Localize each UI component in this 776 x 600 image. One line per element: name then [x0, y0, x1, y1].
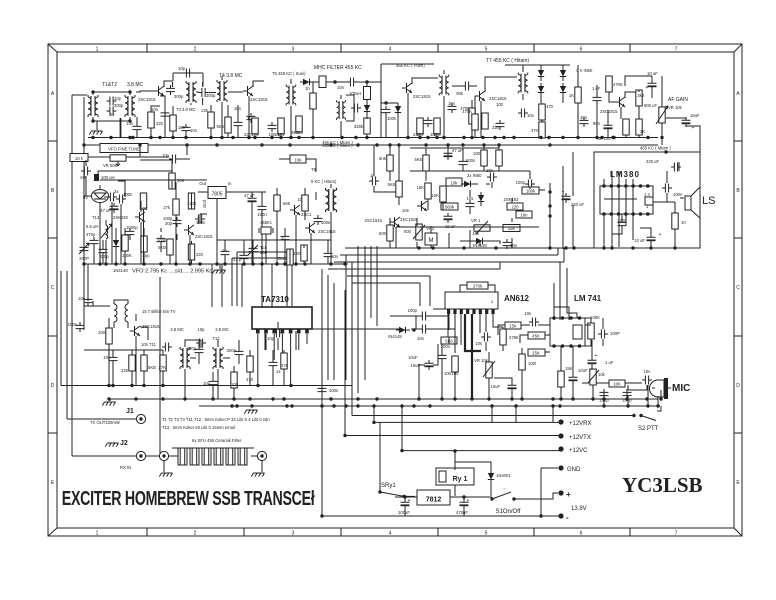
junction	[91, 119, 94, 122]
junction bus	[512, 136, 515, 139]
wire Q4 to T7	[485, 65, 523, 100]
resistor 27K tx	[160, 355, 166, 371]
junction power bus	[514, 404, 517, 407]
junction det3	[548, 214, 551, 217]
capacitor 470uF psu	[460, 499, 469, 509]
wire an in2	[390, 314, 455, 329]
resistor 470K r3	[606, 76, 612, 92]
capacitor 10n e	[503, 239, 512, 249]
IC LM380 pin top	[646, 184, 650, 188]
IC AN612 pin	[460, 309, 463, 314]
wire mic mesh	[604, 385, 647, 399]
IC LM380 pin top	[617, 184, 621, 188]
wire mic drop	[660, 390, 662, 399]
potentiometer VR 50K	[110, 155, 126, 161]
speaker LS body	[685, 196, 691, 210]
transformer T3	[186, 81, 196, 103]
svg-text:220: 220	[156, 121, 164, 126]
svg-text:470: 470	[546, 104, 554, 109]
junction tx bus	[510, 397, 513, 400]
IC LM380 pin bottom	[624, 212, 628, 216]
junction 455 bus	[215, 143, 218, 146]
junction bus	[231, 136, 234, 139]
capacitor 300p t12	[235, 348, 244, 358]
svg-text:7812: 7812	[426, 497, 442, 504]
junction emitter bus	[256, 384, 259, 387]
wire pot links	[661, 76, 663, 145]
junction power bus	[490, 404, 493, 407]
IC TA7310 pin	[272, 329, 276, 334]
svg-text:500: 500	[404, 229, 412, 234]
wire TA7310 out to diode	[285, 328, 399, 330]
transistor Q5 2SC1815	[615, 97, 625, 107]
capacitor 470p	[90, 237, 99, 247]
svg-text:465Kc: 465Kc	[260, 220, 272, 225]
IC AN612 pin	[485, 309, 488, 314]
transistor Q10 2SC1815	[130, 326, 140, 336]
connector filter left	[159, 451, 168, 460]
capacitor 2x vfo	[107, 193, 117, 202]
junction SRy1b	[402, 495, 405, 498]
junction bus	[220, 136, 223, 139]
junction vfo bus	[142, 262, 145, 265]
svg-text:100n: 100n	[387, 116, 397, 121]
svg-text:270k: 270k	[473, 284, 483, 289]
svg-text:10 k: 10 k	[75, 156, 84, 161]
svg-text:3.8 MC: 3.8 MC	[127, 82, 144, 88]
svg-text:10n: 10n	[417, 336, 425, 341]
IC AN612	[445, 292, 498, 309]
resistor 220 Q1	[148, 112, 154, 128]
diode varicap	[113, 237, 119, 251]
svg-text:S1On/Off: S1On/Off	[496, 509, 521, 515]
svg-text:1h: 1h	[305, 86, 310, 91]
junction audio bus	[431, 246, 434, 249]
svg-text:300p: 300p	[227, 348, 237, 353]
junction bus	[289, 136, 292, 139]
svg-text:455 KC ( Mtam ): 455 KC ( Mtam )	[640, 146, 671, 151]
wire +12VC riser	[401, 406, 403, 451]
potentiometer VR1	[474, 225, 490, 231]
box 10k	[70, 154, 88, 162]
junction 455 bus	[446, 143, 449, 146]
wire riser link	[232, 257, 287, 259]
IC LM380 pin bottom	[646, 212, 650, 216]
junction bus	[279, 136, 282, 139]
junction minus left	[320, 514, 323, 517]
junction vfo bus	[260, 262, 263, 265]
junction bus	[561, 136, 564, 139]
wire T5 leads	[290, 79, 292, 138]
svg-text:100P: 100P	[610, 331, 620, 336]
junction bus	[481, 136, 484, 139]
svg-text:220: 220	[196, 252, 204, 257]
junction bus	[576, 136, 579, 139]
junction bus	[109, 136, 112, 139]
resistor 5K6 tx	[141, 355, 147, 371]
svg-text:1n: 1n	[222, 248, 227, 253]
junction bus	[171, 136, 174, 139]
svg-text:7: 7	[675, 47, 678, 53]
IC AN612 pin	[447, 309, 450, 314]
wire main power bus	[199, 405, 660, 407]
svg-text:3k3: 3k3	[637, 93, 644, 98]
svg-text:470: 470	[281, 363, 289, 368]
junction power bus	[412, 404, 415, 407]
junction 455 bus	[375, 143, 378, 146]
capacitor 10uF af out	[682, 117, 691, 127]
wire vfo mesh	[84, 185, 144, 264]
svg-text:2: 2	[194, 47, 197, 53]
svg-text:10n: 10n	[510, 243, 518, 248]
capacitor 10s lm741	[529, 318, 539, 327]
capacitor 47p vfo	[81, 167, 91, 176]
capacitor 100n lm380	[662, 184, 672, 193]
svg-text:RX IN: RX IN	[120, 465, 131, 470]
junction bus	[600, 136, 603, 139]
transformer T12	[213, 347, 223, 369]
junction +12VC	[400, 449, 403, 452]
junction +12VRX	[372, 421, 375, 424]
wire Q5 emitter	[621, 107, 626, 138]
junction tx bus	[645, 397, 648, 400]
capacitor 10n an2	[419, 325, 429, 334]
svg-text:300p: 300p	[206, 93, 216, 98]
frame right ticks	[734, 141, 742, 433]
wire riser 516	[515, 406, 517, 422]
wire J2 link	[72, 455, 136, 457]
resistor 100 q6	[188, 193, 194, 209]
junction tx bus	[107, 397, 110, 400]
svg-text:470K: 470K	[462, 109, 472, 114]
wire r leads	[312, 82, 314, 138]
junction tx bus	[591, 397, 594, 400]
wire S2 leads	[352, 406, 661, 416]
inductor bifilar coil	[114, 300, 128, 328]
junction tx bus	[232, 397, 235, 400]
resistor 270K an	[500, 329, 506, 345]
capacitor 100p det	[525, 180, 535, 189]
svg-text:10uF: 10uF	[408, 355, 418, 360]
wire vfo mesh2	[130, 193, 207, 264]
resistor 220 Q4	[482, 113, 488, 129]
svg-text:5K6: 5K6	[415, 157, 423, 162]
capacitor 100n 7805	[258, 203, 267, 213]
junction vfo bus	[198, 262, 201, 265]
wire bus h2	[334, 248, 564, 262]
junction power bus	[250, 404, 253, 407]
junction bus	[660, 136, 663, 139]
IC AN612 pin	[466, 309, 469, 314]
box LM380 block	[594, 152, 700, 248]
transformer T5	[286, 85, 296, 106]
junction vfo bus	[123, 262, 126, 265]
svg-text:220: 220	[244, 132, 252, 137]
wire ring top rail	[505, 64, 570, 66]
svg-text:2SC1815: 2SC1815	[489, 96, 507, 101]
svg-text:5K6: 5K6	[295, 130, 303, 135]
capacitor 10p feedback	[183, 69, 193, 78]
svg-text:EXCITER HOMEBREW SSB TRANSCEł: EXCITER HOMEBREW SSB TRANSCEł	[62, 487, 315, 510]
diode D2 row1	[364, 102, 370, 116]
svg-text:45K: 45K	[532, 334, 540, 339]
wire top row ground bus	[88, 137, 658, 139]
wire detector out riser	[549, 183, 551, 249]
svg-text:10e: 10e	[402, 208, 410, 213]
wire TA7310 top feeds	[212, 264, 272, 307]
junction 455 bus	[329, 143, 332, 146]
junction audio bus	[673, 246, 676, 249]
junction bus	[340, 136, 343, 139]
wire T4 leads	[221, 76, 223, 138]
capacitor 1n Q2	[247, 113, 256, 123]
svg-text:YC3LSB: YC3LSB	[622, 473, 703, 497]
wire an in	[433, 308, 445, 310]
box 15K b	[503, 225, 520, 232]
svg-text:1: 1	[96, 47, 99, 53]
svg-text:10s: 10s	[475, 341, 482, 346]
svg-text:100p: 100p	[408, 308, 418, 313]
IC LM380 pin bottom	[610, 212, 614, 216]
junction bus	[539, 136, 542, 139]
svg-text:T1&T2: T1&T2	[102, 82, 117, 88]
capacitor 1uF lm741	[588, 357, 597, 367]
capacitor 10n Q4	[518, 109, 528, 118]
wire TA7310 riser 1	[231, 258, 233, 306]
capacitor 1uF	[593, 94, 602, 104]
wire 470K r2 leads	[474, 96, 476, 138]
wire osc out	[104, 196, 109, 198]
resistor 600	[387, 225, 393, 241]
svg-text:VR 50K: VR 50K	[103, 163, 118, 168]
box 100k	[522, 187, 539, 194]
IC LM741	[550, 318, 585, 346]
IC LM380 pin bottom	[639, 212, 643, 216]
wire 10n in	[279, 158, 290, 160]
junction tx bus	[520, 397, 523, 400]
junction audio bus	[649, 246, 652, 249]
capacitor 10uF det	[444, 213, 453, 223]
switch S2 PTT	[641, 416, 656, 421]
inductor 5.5uH	[101, 224, 112, 239]
svg-text:2x IN60: 2x IN60	[467, 173, 482, 178]
junction tx bus	[571, 397, 574, 400]
wire input to T1 from J2	[72, 95, 87, 456]
wire tx t11 t12	[185, 340, 230, 399]
svg-text:J1: J1	[126, 408, 134, 415]
svg-text:1N4001: 1N4001	[496, 473, 511, 478]
diode D3 row1	[395, 103, 401, 117]
svg-text:+12VTX: +12VTX	[569, 435, 591, 441]
diode D row1	[300, 79, 314, 85]
wire Q1 collector rail	[164, 81, 173, 87]
svg-text:100uF: 100uF	[398, 510, 410, 515]
wire T2 to Q1 base	[136, 91, 154, 92]
wire vfo links	[84, 181, 125, 264]
capacitor 10p row2	[169, 155, 179, 164]
junction power bus	[551, 404, 554, 407]
resistor 10K det	[440, 186, 446, 202]
IC AN612 pin	[479, 309, 482, 314]
wire gnd stub	[219, 264, 221, 269]
junction det	[548, 190, 551, 193]
svg-text:15 T Bifilar Bin TV: 15 T Bifilar Bin TV	[142, 309, 176, 314]
junction bus	[91, 136, 94, 139]
microphone MIC	[650, 380, 665, 397]
svg-text:+: +	[408, 498, 411, 504]
svg-text:10n: 10n	[337, 85, 345, 90]
oscillator VFO circle	[92, 190, 109, 203]
svg-text:1000p: 1000p	[126, 225, 138, 230]
wire J1 link	[67, 271, 136, 419]
svg-text:5KB: 5KB	[158, 245, 166, 250]
junction tx bus	[602, 397, 605, 400]
ground tx	[102, 402, 115, 406]
transistor Q6 2SC1815	[184, 225, 194, 235]
wire bus h4	[347, 276, 430, 306]
junction 455 bus	[424, 143, 427, 146]
svg-text:←: ←	[503, 485, 508, 491]
transformer T6	[337, 100, 346, 120]
junction minus rail	[539, 514, 542, 517]
svg-text:2SC1815: 2SC1815	[195, 234, 213, 239]
svg-text:20P: 20P	[260, 250, 268, 255]
filter element leads	[228, 448, 233, 465]
junction vfo bus	[174, 262, 177, 265]
svg-text:100l: 100l	[528, 361, 536, 366]
junction tx bus	[356, 397, 359, 400]
svg-text:1 uF: 1 uF	[605, 360, 614, 365]
resistor 470 tx2	[281, 353, 287, 369]
junction tx bus	[453, 397, 456, 400]
potentiometer VR50K arrow	[116, 162, 120, 167]
junction vfo bus	[215, 262, 218, 265]
mechanical filter MF1	[319, 76, 326, 88]
junction vfo bus	[242, 262, 245, 265]
svg-text:10n: 10n	[151, 107, 159, 112]
resistor 5K6 q6	[167, 239, 173, 255]
svg-text:66K: 66K	[283, 201, 291, 206]
svg-text:T5 455 KC ( Kuni): T5 455 KC ( Kuni)	[272, 71, 306, 76]
box 5K6 an	[441, 337, 457, 344]
capacitor 100n Q3	[424, 117, 433, 127]
svg-text:4 X IN60: 4 X IN60	[576, 68, 593, 73]
svg-text:IN4148: IN4148	[388, 334, 402, 339]
diode ring D3	[560, 67, 566, 81]
resistor 470K r2	[472, 114, 478, 130]
svg-text:100n: 100n	[673, 192, 683, 197]
junction vfo bus	[329, 262, 332, 265]
svg-text:C: C	[51, 285, 55, 291]
wire mid bus 399	[108, 398, 330, 400]
svg-text:4: 4	[389, 47, 392, 53]
junction tx bus	[470, 397, 473, 400]
capacitor 10p tx2	[273, 329, 283, 338]
transistor Q2 2SC1815	[243, 86, 253, 96]
svg-text:278K: 278K	[509, 335, 519, 340]
junction 455 bus	[82, 143, 85, 146]
svg-text:100: 100	[231, 382, 239, 387]
svg-text:100 uH: 100 uH	[101, 175, 115, 180]
IC LM741 pin bottom	[561, 344, 565, 348]
capacitor variable 200P	[80, 244, 89, 254]
capacitor 10n tx2	[162, 343, 172, 352]
wire 10n T4 to bus	[237, 105, 239, 138]
junction lm380 top	[664, 150, 667, 153]
capacitor 10uF lm741	[569, 374, 578, 384]
junction tx bus	[329, 397, 332, 400]
wire VR50K links	[88, 145, 140, 157]
wire Q1 emitter to bus	[160, 96, 165, 138]
junction audio bus	[572, 246, 575, 249]
capacitor 10n T6	[347, 78, 357, 87]
wire xtal mesh2	[217, 235, 331, 264]
diode 1N4001	[488, 470, 494, 484]
svg-text:10s: 10s	[126, 121, 133, 126]
wire x2	[84, 301, 110, 330]
svg-text:VR 1: VR 1	[471, 218, 481, 223]
wire tx in	[87, 264, 89, 301]
wire 5K6 T4 leads	[227, 105, 229, 138]
resistor 22k	[208, 112, 214, 128]
capacitor 10n T4	[234, 119, 243, 129]
wire +12VRX riser	[373, 406, 375, 422]
resistor 15K c	[558, 371, 564, 387]
svg-text:1K: 1K	[569, 93, 574, 98]
capacitor 100n tx	[76, 322, 85, 332]
capacitor 47uF	[604, 122, 613, 132]
junction bus	[158, 136, 161, 139]
filter element leads	[204, 448, 209, 465]
junction bus	[354, 136, 357, 139]
junction 455 bus	[288, 143, 291, 146]
junction audio bus	[610, 246, 613, 249]
wire TA7310 riser 2	[236, 252, 238, 306]
junction vfo bus	[159, 262, 162, 265]
wire minus rail	[322, 515, 561, 517]
capacitor 1s	[269, 359, 278, 369]
IC LM380 pin bottom	[617, 212, 621, 216]
junction 455 bus	[388, 143, 391, 146]
transistor Q4 2SC1815	[475, 91, 485, 101]
wire 10p link	[140, 145, 190, 159]
terminal +12VRX	[558, 419, 563, 424]
junction tx bus	[551, 397, 554, 400]
resistor 100 an2	[519, 354, 525, 370]
svg-text:5K8: 5K8	[388, 182, 396, 187]
svg-text:1K: 1K	[640, 129, 645, 134]
svg-text:T1 T2 T3 T4 T11 T12 : 5mm: T1 T2 T3 T4 T11 T12 : 5mm Koker P 32 Lil…	[162, 417, 270, 422]
relay Ry1 inner	[439, 471, 446, 482]
capacitor 100n t8	[314, 215, 323, 225]
capacitor 300p T3 right	[199, 88, 209, 97]
loop T6	[346, 95, 354, 121]
svg-text:MHC FILTER 455 KC: MHC FILTER 455 KC	[314, 65, 362, 71]
resistor 5K6 T4	[225, 117, 231, 133]
svg-text:47 uF: 47 uF	[244, 193, 255, 198]
junction audio bus	[548, 246, 551, 249]
junction power bus	[602, 404, 605, 407]
junction tx bus	[134, 397, 137, 400]
capacitor 10s an	[481, 333, 491, 342]
wire Q5 base	[609, 92, 615, 102]
wire audio risers	[604, 385, 658, 406]
junction tx bus	[625, 397, 628, 400]
capacitor 10p tx	[196, 339, 206, 348]
svg-text:5 KC ( Hitam): 5 KC ( Hitam)	[311, 179, 337, 184]
transistor Q9 2SC1815	[390, 217, 400, 227]
svg-text:470: 470	[531, 128, 539, 133]
